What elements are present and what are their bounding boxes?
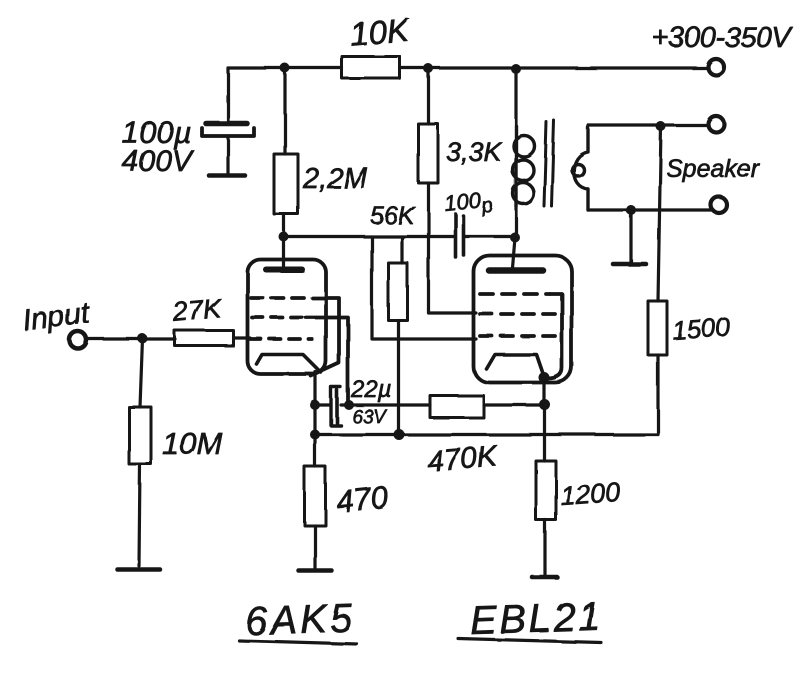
wire to 10M <box>140 339 143 408</box>
label 6AK5 <box>244 596 355 644</box>
EBL21 grid g2 row <box>480 312 556 316</box>
wire 6AK5 cathode lead <box>314 372 317 405</box>
resistor 1500 <box>648 301 667 355</box>
wire to 470 <box>313 435 316 467</box>
label 56K <box>370 202 416 230</box>
wire left branch down <box>226 68 229 123</box>
svg-text:400V: 400V <box>122 145 195 178</box>
label 100p <box>443 186 494 221</box>
label 470K <box>426 440 501 479</box>
label 27K <box>171 293 223 327</box>
wire EBL21 control grid <box>372 237 476 340</box>
svg-text:+300-350V: +300-350V <box>652 22 793 54</box>
wire 470K to EBL21 cathode node <box>484 403 545 406</box>
wire input <box>88 337 175 340</box>
resistor 1200 <box>536 461 556 520</box>
svg-text:10K: 10K <box>348 11 412 53</box>
node 6AK5 cathode / 22µ <box>310 400 320 410</box>
6AK5 grid g1 row <box>250 337 312 341</box>
wire link cathode node down <box>313 405 316 435</box>
label 1500 <box>671 312 731 346</box>
svg-text:10M: 10M <box>162 426 222 461</box>
ground 470 <box>299 568 332 573</box>
capacitor 22µ 63V <box>331 387 341 426</box>
wire EBL21 plate lead <box>513 238 516 269</box>
node input / 10M <box>138 334 148 344</box>
transformer primary winding <box>513 126 535 206</box>
wire 2,2M bottom <box>282 214 285 233</box>
resistor 56K <box>389 263 408 321</box>
resistor 10K <box>342 57 400 79</box>
node g2 / 470K <box>344 400 354 410</box>
svg-text:27K: 27K <box>171 293 223 327</box>
wire to 1200 <box>543 405 546 462</box>
wire EBL21 cathode lead <box>542 378 545 405</box>
label 10K <box>348 11 412 53</box>
label 10M <box>162 426 222 461</box>
svg-text:470: 470 <box>335 479 390 519</box>
wire top rail left <box>228 66 342 69</box>
wire cap to ground <box>226 136 229 173</box>
wire node to 470K <box>349 403 430 406</box>
resistor 10M <box>129 407 151 464</box>
capacitor 100p <box>456 214 464 257</box>
svg-text:EBL21: EBL21 <box>469 594 603 643</box>
wire secondary bottom to speaker terminal <box>589 208 712 211</box>
node top rail / 2,2M <box>280 63 290 73</box>
wire 3,3K to EBL21 screen grid <box>429 183 477 313</box>
label Speaker <box>666 155 761 183</box>
wire secondary to 1500 <box>658 127 661 302</box>
EBL21 anode bar <box>489 267 543 274</box>
node 6AK5 plate <box>279 232 289 242</box>
tube 6AK5 envelope <box>248 260 327 375</box>
wire to 2,2M <box>283 68 286 154</box>
EBL21 underline <box>458 639 601 643</box>
resistor 470 <box>305 467 326 526</box>
svg-text:2,2M: 2,2M <box>302 163 368 195</box>
EBL21 cathode <box>487 355 545 377</box>
wire 6AK5 plate lead <box>282 237 285 268</box>
svg-text:Speaker: Speaker <box>666 155 761 183</box>
wire 100p to EBL21 plate node <box>464 235 516 238</box>
svg-text:1200: 1200 <box>559 477 621 511</box>
node top rail / transformer <box>511 64 521 74</box>
node secondary bottom / ground <box>626 205 636 215</box>
capacitor 100µ 400V <box>202 124 254 137</box>
svg-text:3,3K: 3,3K <box>446 137 503 167</box>
6AK5 cathode <box>257 355 322 373</box>
label 22µ <box>350 376 392 403</box>
svg-text:22µ: 22µ <box>350 376 392 403</box>
node wire2 left <box>310 430 320 440</box>
wire 27K to 6AK5 grid <box>234 336 251 339</box>
node EBL21 cathode / 1200 <box>539 399 550 410</box>
wire 1200 bottom <box>543 520 546 575</box>
wire 56K bottom <box>397 321 400 434</box>
terminal speaker bottom <box>711 197 727 213</box>
transformer secondary <box>572 126 588 211</box>
label 3,3K <box>446 137 503 167</box>
wire bias rail <box>315 433 658 436</box>
ground 1200 <box>532 575 557 580</box>
label +300-350V <box>652 22 793 54</box>
wire cathode node to 22µ <box>315 403 331 406</box>
svg-text:56K: 56K <box>370 202 416 230</box>
EBL21 grid g1 row <box>480 334 558 338</box>
resistor 470K <box>430 396 484 418</box>
wire 470 bottom <box>313 526 316 569</box>
wire top rail right <box>400 66 708 69</box>
6AK5 anode bar <box>266 267 302 273</box>
transformer core <box>544 121 554 207</box>
label 1200 <box>559 477 621 511</box>
tube EBL21 envelope <box>474 256 572 383</box>
6AK5 underline <box>239 641 357 645</box>
svg-text:1500: 1500 <box>671 312 731 346</box>
ground speaker <box>613 262 646 267</box>
node secondary top / 1500 <box>656 122 666 132</box>
node top rail / 3,3K <box>424 64 434 74</box>
wire secondary top to speaker terminal <box>588 124 709 127</box>
svg-text:470K: 470K <box>426 440 501 479</box>
wire 22µ to node <box>341 403 349 406</box>
label 2,2M <box>302 163 368 195</box>
terminal speaker top <box>709 117 725 133</box>
label 100µ <box>122 115 192 150</box>
wire to transformer primary <box>514 69 517 126</box>
6AK5 grid g2 row and lead <box>252 318 348 405</box>
label 470 <box>335 479 390 519</box>
label 400V <box>122 145 195 178</box>
wire 56K top stub <box>400 237 403 264</box>
wire primary to plate node <box>514 206 517 237</box>
6AK5 grid g3 row and tie <box>251 298 339 376</box>
label 63V <box>352 407 388 428</box>
label EBL21 <box>469 594 603 643</box>
node EBL21 plate <box>510 233 520 243</box>
wire 1500 bottom <box>656 355 659 435</box>
svg-text:63V: 63V <box>352 407 388 428</box>
svg-text:6AK5: 6AK5 <box>244 596 355 644</box>
node EBL21 cathode <box>539 372 550 383</box>
terminal B+ <box>708 59 724 75</box>
resistor 27K <box>175 331 234 346</box>
ground 10M <box>118 567 161 572</box>
wire 10M bottom <box>139 464 140 566</box>
wire plate node to 100p <box>284 235 456 238</box>
ground <box>209 173 245 178</box>
wire to 3,3K <box>427 68 430 124</box>
resistor 3,3K <box>419 124 439 183</box>
node 56K / bias rail <box>394 429 405 440</box>
resistor 2,2M <box>274 154 298 214</box>
wire secondary ground stub <box>629 210 632 262</box>
terminal input <box>70 332 87 349</box>
label Input <box>21 296 93 337</box>
EBL21 grid g3 row and cathode tie <box>480 294 562 379</box>
